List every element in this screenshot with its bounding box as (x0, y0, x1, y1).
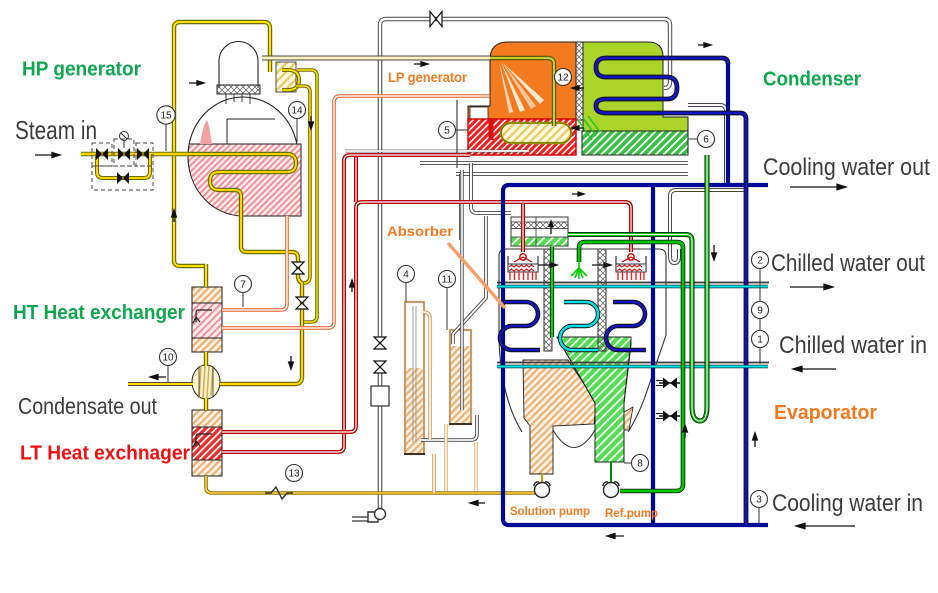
svg-text:1: 1 (757, 335, 763, 346)
svg-text:Chilled water in: Chilled water in (779, 332, 927, 359)
svg-text:Steam in: Steam in (15, 115, 97, 145)
svg-text:HT Heat exchanger: HT Heat exchanger (13, 301, 185, 324)
svg-text:Evaporator: Evaporator (774, 402, 877, 424)
svg-text:LT Heat exchnager: LT Heat exchnager (20, 442, 190, 465)
svg-text:Chilled water out: Chilled water out (771, 250, 925, 277)
svg-text:10: 10 (162, 353, 174, 364)
svg-text:8: 8 (637, 459, 643, 470)
svg-text:Condensate out: Condensate out (18, 393, 158, 419)
svg-text:Absorber: Absorber (387, 223, 454, 239)
svg-text:3: 3 (756, 495, 762, 506)
svg-text:Cooling water in: Cooling water in (772, 490, 923, 517)
svg-text:2: 2 (757, 256, 763, 267)
svg-text:Condenser: Condenser (763, 68, 861, 91)
svg-text:Ref.pump: Ref.pump (605, 508, 658, 520)
svg-text:12: 12 (557, 73, 569, 84)
svg-text:7: 7 (240, 280, 246, 291)
svg-text:4: 4 (403, 270, 409, 281)
svg-text:5: 5 (444, 126, 450, 137)
svg-text:LP generator: LP generator (388, 70, 468, 85)
svg-text:14: 14 (291, 106, 303, 117)
svg-text:HP generator: HP generator (22, 58, 141, 81)
svg-text:9: 9 (757, 306, 763, 317)
svg-text:15: 15 (160, 111, 172, 122)
svg-text:Solution pump: Solution pump (510, 506, 590, 518)
svg-text:Cooling water out: Cooling water out (763, 154, 930, 181)
svg-text:13: 13 (288, 469, 300, 480)
svg-text:6: 6 (703, 135, 709, 146)
svg-text:11: 11 (442, 275, 453, 286)
